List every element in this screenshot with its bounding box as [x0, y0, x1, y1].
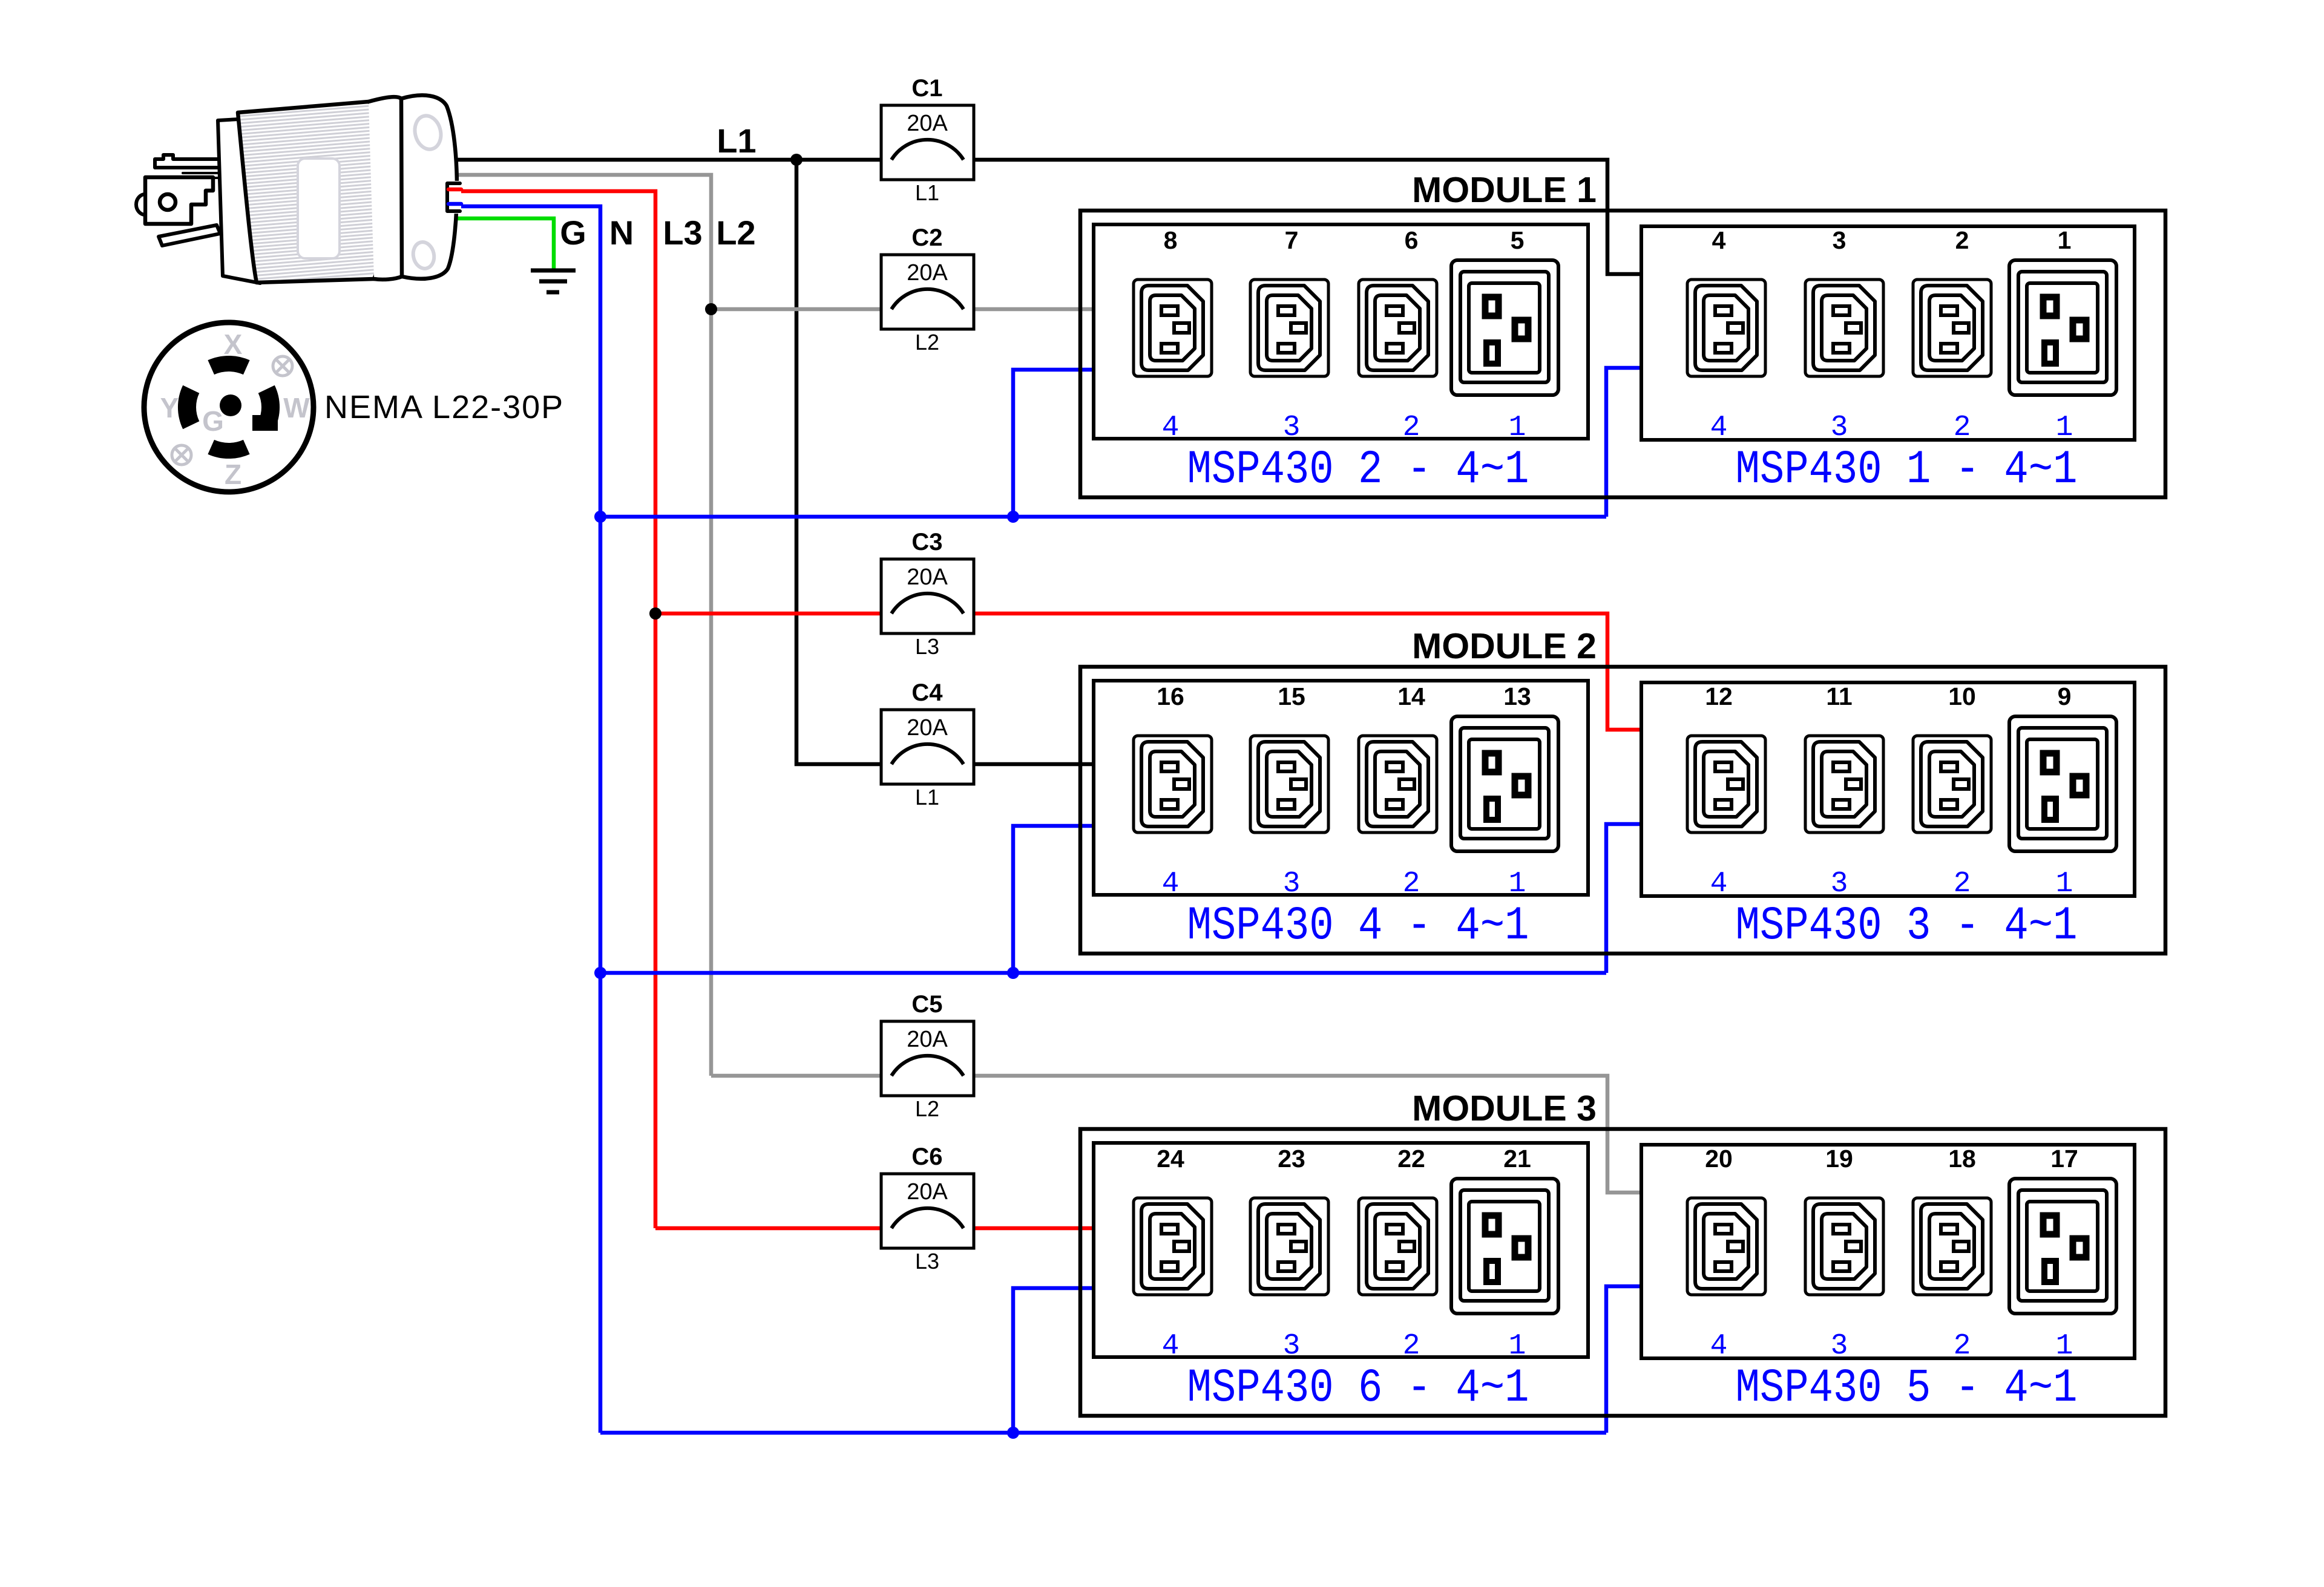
wire L2 to C5: [711, 1074, 881, 1078]
wire G green from plug to ground: [450, 218, 554, 269]
svg-text:MODULE 1: MODULE 1: [1412, 170, 1597, 210]
svg-text:C1: C1: [911, 75, 942, 102]
svg-text:21: 21: [1503, 1145, 1531, 1173]
svg-text:4: 4: [1710, 411, 1728, 444]
breaker C6 (L3, 20A): [881, 1174, 974, 1248]
svg-text:3: 3: [1283, 411, 1301, 444]
wire C4 to module 2 left bank (L1): [974, 762, 1094, 767]
svg-text:5: 5: [1511, 226, 1525, 254]
svg-text:C5: C5: [911, 991, 942, 1018]
module 2 right bank box: [1641, 682, 2135, 896]
wire C5 to module 3 right bank (L2): [974, 1076, 1641, 1193]
svg-text:20A: 20A: [907, 564, 948, 590]
wire N riser to right bank: [1606, 368, 1641, 517]
outlet 11 (IEC C13): [1805, 736, 1883, 833]
wire N bus under module at y=1608: [600, 971, 1606, 975]
outlet 20 (IEC C13): [1687, 1198, 1765, 1295]
svg-text:4: 4: [1162, 1330, 1180, 1363]
svg-text:2: 2: [1403, 411, 1420, 444]
wire N riser to right bank: [1606, 1286, 1641, 1433]
svg-text:W: W: [283, 392, 310, 424]
outlet 1 (IEC C19): [2009, 260, 2116, 395]
plug middle blade: [145, 177, 213, 224]
outlet 24 (IEC C13): [1134, 1198, 1212, 1295]
outlet 21 (IEC C19): [1451, 1179, 1558, 1314]
svg-text:13: 13: [1503, 682, 1531, 710]
svg-text:2: 2: [1954, 411, 1971, 444]
outlet 14 (IEC C13): [1359, 736, 1437, 833]
breaker C1 (L1, 20A): [881, 105, 974, 180]
svg-text:22: 22: [1397, 1145, 1425, 1173]
svg-text:G: G: [202, 405, 224, 437]
pin Y slot: [178, 385, 199, 430]
svg-text:L3: L3: [915, 634, 939, 659]
svg-text:L1: L1: [717, 122, 756, 160]
svg-text:8: 8: [1164, 226, 1178, 254]
wire L2 gray from plug, down the L2 bus: [450, 175, 711, 1076]
svg-text:MSP430 1 - 4~1: MSP430 1 - 4~1: [1736, 443, 2078, 497]
plug back plate: [218, 118, 260, 283]
svg-text:L3: L3: [663, 214, 702, 252]
svg-text:MODULE 2: MODULE 2: [1412, 626, 1597, 666]
pin X slot: [208, 356, 249, 375]
svg-text:3: 3: [1283, 1330, 1301, 1363]
svg-text:3: 3: [1831, 868, 1848, 900]
svg-text:10: 10: [1948, 682, 1976, 710]
svg-text:16: 16: [1157, 682, 1184, 710]
wire N riser to left bank: [1013, 1288, 1094, 1433]
plug NEMA L22-30P (pictorial): [136, 95, 461, 284]
svg-text:4: 4: [1162, 411, 1180, 444]
wire N bus under module at y=854: [600, 515, 1606, 519]
plug label window: [298, 159, 340, 258]
svg-text:7: 7: [1285, 226, 1299, 254]
outlet 13 (IEC C19): [1451, 716, 1558, 851]
svg-text:15: 15: [1278, 682, 1305, 710]
outlet 18 (IEC C13): [1913, 1198, 1991, 1295]
NEMA L22-30P face symbol: [144, 322, 313, 492]
svg-text:24: 24: [1157, 1145, 1184, 1173]
junction L3 branch: [649, 607, 661, 620]
outlet 5 (IEC C19): [1451, 260, 1558, 395]
svg-text:C6: C6: [911, 1144, 942, 1170]
plug top blade: [155, 155, 220, 168]
svg-text:3: 3: [1831, 411, 1848, 444]
wire L3 to C6: [655, 1226, 881, 1231]
module 2 left bank box: [1094, 681, 1588, 895]
outlet 16 (IEC C13): [1134, 736, 1212, 833]
svg-text:11: 11: [1826, 682, 1852, 710]
svg-text:20A: 20A: [907, 1179, 948, 1205]
outlet 22 (IEC C13): [1359, 1198, 1437, 1295]
svg-text:19: 19: [1825, 1145, 1853, 1173]
outlet 19 (IEC C13): [1805, 1198, 1883, 1295]
svg-text:L3: L3: [915, 1249, 939, 1274]
plug cord notch: [445, 181, 461, 214]
svg-text:MSP430 2 - 4~1: MSP430 2 - 4~1: [1187, 443, 1529, 497]
svg-text:17: 17: [2050, 1145, 2078, 1173]
svg-text:C4: C4: [911, 679, 943, 706]
svg-text:1: 1: [1509, 411, 1526, 444]
svg-text:L1: L1: [915, 785, 939, 810]
outlet 15 (IEC C13): [1250, 736, 1328, 833]
breaker C3 (L3, 20A): [881, 559, 974, 633]
svg-text:2: 2: [1403, 1330, 1420, 1363]
svg-text:3: 3: [1833, 226, 1846, 254]
svg-text:3: 3: [1831, 1330, 1848, 1363]
wire through C5: [881, 1074, 974, 1078]
svg-text:L2: L2: [915, 330, 939, 355]
outlet 23 (IEC C13): [1250, 1198, 1328, 1295]
outlet 17 (IEC C19): [2009, 1179, 2116, 1314]
svg-text:6: 6: [1405, 226, 1419, 254]
svg-text:N: N: [609, 214, 634, 252]
svg-text:23: 23: [1278, 1145, 1305, 1173]
plug blade edge lines: [183, 172, 220, 174]
wire through C2: [881, 307, 974, 312]
wire N riser to right bank: [1606, 824, 1641, 973]
svg-text:L2: L2: [716, 214, 755, 252]
plug collar band: [369, 97, 404, 280]
outlet 2 (IEC C13): [1913, 280, 1991, 376]
svg-text:X: X: [224, 329, 243, 360]
svg-text:1: 1: [2056, 1330, 2073, 1363]
wire C1 to module 1 right bank (L1): [974, 160, 1641, 274]
plug cap: [401, 95, 457, 278]
module 3 right bank box: [1641, 1145, 2135, 1358]
pin Z slot: [208, 440, 249, 459]
svg-text:MSP430 4 - 4~1: MSP430 4 - 4~1: [1187, 900, 1529, 953]
plug bottom blade: [159, 225, 220, 246]
ground symbol: [531, 269, 576, 273]
wire C2 to module 1 left bank (L2): [974, 307, 1094, 312]
svg-text:Z: Z: [225, 459, 241, 490]
svg-text:1: 1: [2056, 411, 2073, 444]
svg-text:G: G: [560, 214, 586, 252]
screw bottom left: [172, 445, 191, 465]
svg-text:4: 4: [1710, 868, 1728, 900]
svg-text:1: 1: [2058, 226, 2072, 254]
junction L2 branch: [705, 303, 717, 315]
wire N bus under module at y=2368: [600, 1431, 1606, 1435]
svg-text:2: 2: [1403, 868, 1420, 900]
wire N riser to left bank: [1013, 370, 1094, 517]
svg-text:3: 3: [1283, 868, 1301, 900]
svg-text:12: 12: [1705, 682, 1733, 710]
outlet 4 (IEC C13): [1687, 280, 1765, 376]
module 2 outer box: [1080, 667, 2165, 954]
svg-text:4: 4: [1710, 1330, 1728, 1363]
center ground pin: [220, 394, 241, 416]
screw top right: [273, 356, 292, 376]
wire L3 red from plug, down the L3 bus: [451, 191, 655, 1228]
module 1 outer box: [1080, 211, 2165, 497]
svg-text:4: 4: [1162, 868, 1180, 900]
svg-text:14: 14: [1397, 682, 1425, 710]
junction N riser module 3: [1007, 1427, 1019, 1439]
junction L1 branch: [790, 154, 803, 166]
outlet 6 (IEC C13): [1359, 280, 1437, 376]
module 3 left bank box: [1094, 1143, 1588, 1357]
wire C6 to module 3 left bank (L3): [974, 1226, 1094, 1231]
svg-text:MSP430 6 - 4~1: MSP430 6 - 4~1: [1187, 1362, 1529, 1415]
svg-text:C2: C2: [911, 224, 942, 251]
svg-text:2: 2: [1955, 226, 1969, 254]
breaker C5 (L2, 20A): [881, 1021, 974, 1096]
breaker C2 (L2, 20A): [881, 255, 974, 329]
outlet 8 (IEC C13): [1134, 280, 1212, 376]
outlet 10 (IEC C13): [1913, 736, 1991, 833]
svg-text:9: 9: [2058, 682, 2072, 710]
wire L2 branch to C2: [711, 307, 881, 312]
svg-text:C3: C3: [911, 529, 942, 555]
breaker C4 (L1, 20A): [881, 710, 974, 784]
wire N blue from plug, down the N bus: [451, 206, 600, 1433]
svg-text:4: 4: [1712, 226, 1726, 254]
svg-text:20A: 20A: [907, 260, 948, 286]
svg-text:2: 2: [1954, 1330, 1971, 1363]
svg-text:L1: L1: [915, 180, 939, 205]
svg-text:20A: 20A: [907, 111, 948, 136]
svg-text:NEMA L22-30P: NEMA L22-30P: [324, 389, 564, 425]
outlet 9 (IEC C19): [2009, 716, 2116, 851]
svg-text:18: 18: [1948, 1145, 1976, 1173]
svg-text:20: 20: [1705, 1145, 1733, 1173]
svg-text:L2: L2: [915, 1096, 939, 1121]
svg-text:1: 1: [2056, 868, 2073, 900]
outlet 7 (IEC C13): [1250, 280, 1328, 376]
wire C3 to module 2 right bank (L3): [974, 614, 1641, 730]
junction N riser: [1007, 511, 1019, 523]
module 1 right bank box: [1641, 226, 2135, 440]
svg-text:MSP430 5 - 4~1: MSP430 5 - 4~1: [1736, 1362, 2078, 1415]
junction N bus: [594, 967, 606, 979]
junction N bus: [594, 511, 606, 523]
junction N riser: [1007, 967, 1019, 979]
svg-text:20A: 20A: [907, 715, 948, 741]
outlet 12 (IEC C13): [1687, 736, 1765, 833]
wire N riser to left bank: [1013, 826, 1094, 973]
outlet 3 (IEC C13): [1805, 280, 1883, 376]
svg-text:1: 1: [1509, 1330, 1526, 1363]
pin W slot: [258, 385, 280, 430]
svg-text:MODULE 3: MODULE 3: [1412, 1088, 1597, 1128]
svg-text:20A: 20A: [907, 1027, 948, 1052]
svg-text:2: 2: [1954, 868, 1971, 900]
wire L3 branch to C3: [655, 612, 881, 616]
svg-text:1: 1: [1509, 868, 1526, 900]
wire L1 black from plug to C1: [449, 158, 881, 162]
module 1 left bank box: [1094, 224, 1588, 439]
wire L1 branch down to C4: [796, 160, 881, 764]
svg-text:MSP430 3 - 4~1: MSP430 3 - 4~1: [1736, 900, 2078, 953]
svg-text:Y: Y: [160, 392, 179, 424]
module 3 outer box: [1080, 1129, 2165, 1416]
